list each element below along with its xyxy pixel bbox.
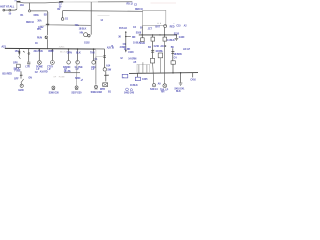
ground G302 — [76, 64, 78, 86]
horn B1 — [84, 33, 88, 37]
ground G303 — [95, 85, 98, 88]
svg-text:ORG: ORG — [34, 14, 39, 17]
svg-text:18 BLK: 18 BLK — [79, 27, 87, 30]
wire V1 tap — [90, 2, 92, 35]
wire bus2 — [139, 34, 177, 36]
tap T2 lighter — [28, 49, 30, 62]
wire bus1 end drop — [104, 49, 106, 67]
svg-text:TAN: TAN — [90, 51, 95, 54]
svg-text:S40 G4: S40 G4 — [150, 88, 158, 91]
svg-text:C210: C210 — [154, 45, 160, 48]
svg-text:JUNC: JUNC — [59, 46, 65, 48]
svg-text:16 DBL: 16 DBL — [155, 50, 163, 53]
fuse F12 drop — [164, 35, 166, 37]
fuse tap T1 — [18, 49, 20, 56]
svg-text:LIC LP: LIC LP — [183, 48, 190, 51]
gray dash right of V1 — [98, 15, 110, 17]
svg-text:FUSE: FUSE — [15, 70, 21, 73]
ground G2 — [175, 35, 177, 38]
svg-text:C100: C100 — [128, 51, 134, 54]
wire ignition switch drop — [46, 25, 48, 35]
connector dots inside box — [158, 23, 159, 24]
connector box blue B — [135, 77, 140, 80]
svg-text:OFF: OFF — [14, 78, 19, 81]
box wiper W1 — [158, 53, 162, 58]
svg-text:HN: HN — [80, 32, 84, 35]
wire S2 lower — [105, 71, 107, 81]
tap T4 ground lamp — [51, 49, 53, 60]
svg-text:LP: LP — [91, 68, 94, 71]
ground G401 — [152, 84, 155, 87]
svg-text:RED 16: RED 16 — [26, 21, 35, 24]
svg-text:RED: RED — [170, 25, 175, 28]
wire T1 lower chain — [20, 71, 22, 78]
wire L3 — [31, 10, 48, 12]
svg-text:ON: ON — [28, 77, 32, 80]
wire faint engine line — [151, 2, 177, 4]
svg-text:LP: LP — [48, 68, 51, 71]
svg-text:G102: G102 — [84, 41, 90, 44]
svg-text:30A: 30A — [37, 19, 41, 22]
connector C100 tick on rail — [59, 1, 63, 3]
ground G301 — [52, 86, 55, 89]
wire bus1 main — [5, 47, 105, 50]
svg-text:S309 G303: S309 G303 — [91, 91, 103, 94]
connector box blue A — [122, 74, 128, 78]
switch S1 blade — [45, 36, 48, 39]
svg-text:14 ORN: 14 ORN — [128, 57, 136, 60]
svg-text:A16 RD: A16 RD — [40, 71, 48, 74]
wire col 152 chain — [152, 41, 154, 58]
connector circle B — [61, 18, 64, 21]
svg-text:BLK: BLK — [76, 51, 81, 54]
svg-text:RD: RD — [132, 36, 136, 39]
wire top power rail — [17, 1, 63, 4]
svg-text:10 BLK: 10 BLK — [133, 42, 141, 45]
wire corner to junction — [47, 11, 90, 25]
wire T7b drop to ground — [95, 57, 97, 85]
tap T3 lamp — [38, 49, 40, 61]
svg-text:BRN: BRN — [48, 50, 53, 53]
svg-text:LTR: LTR — [26, 66, 31, 69]
connector tick bus1 — [23, 51, 24, 52]
lamp E2 — [163, 84, 167, 88]
wire ground drop right — [180, 73, 182, 83]
wire L4 stub drop — [62, 11, 64, 18]
node junction dots bus2 — [142, 34, 143, 35]
tap T5 — [68, 48, 70, 50]
svg-text:A21: A21 — [1, 44, 6, 48]
switch S2 — [103, 68, 106, 71]
svg-text:S307 G30: S307 G30 — [71, 91, 82, 94]
connector tick on corner — [46, 23, 49, 25]
svg-text:G100: G100 — [179, 36, 185, 39]
fuse F11 drop — [152, 35, 154, 37]
wire mid feed arrow — [125, 31, 127, 33]
wire V0 drop — [29, 3, 31, 10]
svg-text:16 BLK: 16 BLK — [130, 84, 138, 87]
svg-text:RH: RH — [161, 91, 165, 94]
bulb E1 — [164, 25, 167, 28]
svg-text:10A: 10A — [20, 4, 24, 7]
ground G402 — [179, 82, 183, 84]
wire lower right rail — [129, 72, 198, 75]
svg-text:RUN: RUN — [37, 37, 42, 40]
fuse F10 drop — [141, 35, 143, 38]
svg-text:18 LBL: 18 LBL — [64, 70, 72, 73]
wire box left edge drop — [141, 26, 143, 35]
svg-text:20A TAN: 20A TAN — [34, 50, 43, 53]
svg-text:BAT: BAT — [155, 25, 160, 28]
arrow down mid feed — [125, 50, 127, 53]
junction block box lower right end — [96, 49, 105, 56]
svg-text:BLK: BLK — [176, 90, 181, 93]
svg-text:G200: G200 — [18, 89, 24, 92]
tap T7 — [93, 48, 95, 50]
svg-text:B10 RED: B10 RED — [2, 73, 12, 76]
svg-text:C410: C410 — [190, 79, 196, 82]
svg-text:FUS LK: FUS LK — [119, 27, 127, 30]
junction block box right — [143, 10, 166, 25]
wire col 172 chain — [172, 48, 174, 61]
svg-text:JCT: JCT — [148, 27, 153, 30]
svg-text:PPL: PPL — [37, 28, 42, 31]
connector block C250 — [137, 64, 150, 72]
svg-text:RED 10: RED 10 — [135, 8, 144, 11]
wire C250 drop — [137, 73, 139, 77]
svg-text:LP: LP — [76, 68, 79, 71]
svg-text:RD 12: RD 12 — [127, 2, 134, 5]
svg-text:12 RD: 12 RD — [124, 48, 131, 51]
wire L4 bus — [63, 10, 143, 13]
svg-text:15A: 15A — [15, 50, 19, 53]
relay box K1 light outline — [40, 12, 49, 26]
svg-text:HOT AT ALL: HOT AT ALL — [0, 4, 15, 8]
svg-text:S108: S108 — [136, 32, 142, 35]
motor M1 — [103, 83, 108, 87]
wire col 164 chain to lamp — [164, 41, 166, 84]
tap T6 — [77, 48, 79, 50]
fuse F2 row symbols — [3, 9, 17, 11]
svg-text:S306 G30: S306 G30 — [49, 91, 60, 94]
svg-text:14 BLK: 14 BLK — [167, 39, 175, 42]
svg-text:ORN: ORN — [67, 51, 72, 54]
wire short link y72.7 — [64, 72, 80, 74]
wire bulb drop — [164, 27, 166, 35]
connector circle A — [28, 10, 30, 12]
svg-text:S304: S304 — [75, 77, 81, 80]
svg-text:C205: C205 — [142, 78, 148, 81]
svg-text:FUSE: FUSE — [59, 77, 65, 79]
svg-text:S402 G40: S402 G40 — [124, 91, 135, 94]
